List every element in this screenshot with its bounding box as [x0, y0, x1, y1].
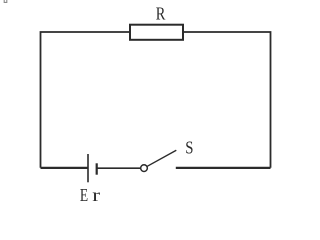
svg-text:R: R [156, 3, 166, 24]
svg-text:E: E [80, 186, 88, 204]
svg-text:S: S [185, 137, 193, 158]
svg-text:r: r [92, 185, 100, 204]
